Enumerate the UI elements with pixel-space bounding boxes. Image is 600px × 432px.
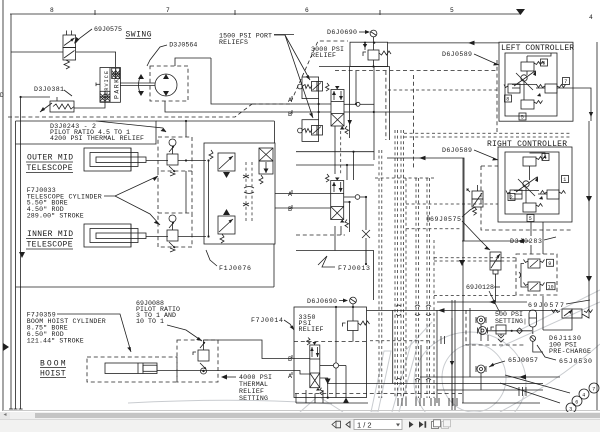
solenoid valve 69J0575 lower [490, 252, 501, 302]
hose fan lines [500, 383, 560, 403]
riser x356 [355, 71, 357, 104]
arrow 4000psi [224, 376, 236, 378]
svg-text:8: 8 [50, 7, 54, 14]
check diamond on 500psi line [487, 330, 532, 332]
left ctrl top valve [521, 56, 544, 71]
leader 65J0530 [537, 345, 556, 360]
svg-text:69J0575: 69J0575 [94, 26, 122, 33]
svg-text:B: B [288, 356, 292, 363]
wire holding valve right riser [178, 160, 206, 162]
leader 65J0057 [489, 361, 505, 367]
500psi setting box lines [469, 308, 471, 377]
left ctrl pilot lines [526, 71, 528, 75]
bottom manifold dashed chain [295, 393, 462, 395]
svg-text:TELESCOPE: TELESCOPE [27, 241, 73, 250]
left ctrl right valve [537, 84, 566, 93]
right ctrl box 5 [527, 215, 534, 222]
svg-text:4200 PSI THERMAL RELIEF: 4200 PSI THERMAL RELIEF [50, 135, 144, 142]
leader D3J0564 [147, 45, 167, 66]
fitting circle A [476, 316, 486, 324]
svg-text:D3J0283: D3J0283 [510, 238, 542, 245]
svg-text:BOOM: BOOM [40, 359, 66, 368]
riser x353 boom box [352, 307, 354, 321]
svg-text:RELIEF: RELIEF [311, 52, 336, 59]
watermark letter N strokes [392, 340, 412, 412]
hose crossing bumps row [396, 305, 431, 380]
wire boom B route [204, 340, 310, 359]
svg-text:F7J0013: F7J0013 [338, 265, 370, 272]
svg-text:SETTING|: SETTING| [495, 318, 527, 325]
pilot line with arrow y302 [437, 301, 527, 303]
pilot riser outer [185, 121, 187, 137]
zone tick 2 [234, 10, 236, 15]
svg-text:8: 8 [506, 97, 509, 103]
svg-text:69J0128: 69J0128 [466, 284, 494, 291]
svg-text:10 TO 1: 10 TO 1 [136, 318, 164, 325]
leader 69J0575 [76, 29, 93, 43]
svg-text:69J0577: 69J0577 [528, 302, 564, 309]
riser x336 boom box [335, 307, 337, 363]
wire inner cyl to holding valve [146, 236, 168, 238]
svg-text:2: 2 [510, 195, 513, 201]
inner holding valve dashed block [158, 213, 192, 247]
left controller outer box [499, 42, 573, 121]
leader 69J0575 to lower valve [462, 221, 490, 250]
relief valve 3350psi [343, 321, 370, 331]
outer telescope cylinder [84, 148, 146, 171]
gauge port D6J0690 boom [350, 297, 357, 304]
F1J0076 side valve [259, 148, 273, 184]
circled hose number 7 [589, 383, 599, 393]
bottom manifold line [296, 402, 368, 404]
leader D3J0381 [64, 90, 72, 96]
wire B continuation right [344, 111, 414, 113]
svg-text:500 PSI: 500 PSI [495, 311, 523, 318]
valve bank top line [319, 66, 390, 68]
svg-text:INNER MID: INNER MID [27, 230, 73, 239]
boom check diamond [201, 368, 207, 374]
boom hoist cylinder [105, 363, 157, 374]
riser x374 valve bank [373, 67, 375, 161]
svg-text:65J0057: 65J0057 [508, 357, 538, 364]
leader F7J0014 [284, 320, 294, 330]
right ctrl left valve [506, 190, 522, 199]
relief valve D3J0381 [40, 101, 74, 112]
watermark right swoosh [500, 344, 600, 412]
svg-text:6: 6 [542, 61, 545, 67]
spool valve swing [326, 83, 349, 134]
service park brake box [96, 68, 121, 103]
swing motor circle [155, 74, 177, 96]
motor shaft [120, 82, 155, 84]
chain boundary into box [296, 234, 345, 236]
solid vertical x543 [542, 222, 544, 254]
circled hose number 4 [579, 389, 589, 399]
svg-text:121.44" STROKE: 121.44" STROKE [27, 338, 84, 345]
svg-text:D6J0589: D6J0589 [442, 147, 472, 154]
wire valve right to brake box [76, 52, 116, 67]
outer holding valve check circle [169, 139, 176, 146]
boom holding valve dashed block [177, 340, 218, 382]
port relief B cartridge [298, 126, 323, 136]
svg-text:F1J0076: F1J0076 [219, 265, 251, 272]
fitting circle C [476, 365, 486, 373]
D3J0283 internal risers [521, 264, 528, 288]
svg-text:1 / 2: 1 / 2 [357, 420, 372, 429]
spool valve telescope F7J0013 [326, 174, 349, 228]
D3J0283 dashed block [516, 254, 557, 295]
right ctrl bottom valve [523, 196, 543, 212]
dashed hose bundle verticals [379, 130, 434, 398]
F1J0076 upper pilot valve [209, 150, 235, 178]
svg-text:6: 6 [575, 400, 578, 406]
spool swing tank port [349, 67, 351, 139]
solid long vertical x462 [462, 158, 464, 403]
svg-text:D6J0690: D6J0690 [327, 29, 357, 36]
svg-text:4000 PSI: 4000 PSI [239, 374, 272, 381]
watermark swoosh group [128, 290, 600, 432]
F1J0076 lower pilot valve [218, 209, 235, 243]
svg-text:9: 9 [548, 261, 551, 267]
svg-text:RELIEFS: RELIEFS [219, 39, 248, 46]
svg-text:10: 10 [548, 284, 554, 290]
dashed cross horizontals [388, 90, 572, 295]
watermark letter C big ellipse [414, 332, 526, 432]
boom valve section box [294, 307, 367, 398]
outer holding valve cartridge [167, 146, 178, 176]
relief valve 3000psi [363, 50, 391, 67]
dashed line in boom box [294, 341, 367, 343]
zone tick 3 [379, 10, 381, 15]
leader F7J0013 [318, 256, 335, 267]
wire relief left to x20.6 [21, 96, 50, 98]
riser x318 between reliefs [318, 99, 320, 120]
motor rotation arrows [139, 75, 142, 95]
fitting circle B [478, 327, 488, 335]
svg-text:1: 1 [563, 177, 566, 183]
leader 69J0088 [167, 325, 202, 341]
leader D6J0589 right [474, 150, 498, 160]
wire boom A route [183, 371, 310, 375]
load check X [362, 230, 370, 238]
inner telescope cylinder [84, 224, 146, 247]
right ctrl right valve [541, 190, 566, 199]
frame bottom border [3, 410, 600, 412]
leader F7J0033 to outer [104, 176, 158, 196]
svg-text:HOIST: HOIST [40, 369, 66, 378]
leader D6J0589 left [474, 54, 499, 65]
svg-text:A: A [288, 97, 292, 104]
leader 69J0128 [489, 291, 500, 313]
long return line x20.6 [20, 97, 22, 409]
svg-text:RELIEF: RELIEF [239, 388, 264, 395]
dashed region box mid [385, 71, 387, 140]
svg-text:RELIEF: RELIEF [299, 326, 324, 333]
svg-text:PRE-CHARGE: PRE-CHARGE [549, 348, 591, 355]
svg-text:OUTER MID: OUTER MID [27, 154, 73, 163]
circled hose number 3 [566, 403, 576, 413]
svg-text:D3J0564: D3J0564 [169, 42, 197, 49]
circled hose number 6 [572, 396, 582, 406]
svg-text:D: D [0, 92, 4, 99]
long line y121 [156, 120, 274, 122]
svg-text:A: A [288, 191, 292, 198]
svg-text:69J0575: 69J0575 [430, 216, 461, 223]
long return line x11 [10, 14, 12, 409]
valve 69J0577 [552, 309, 593, 318]
note box [16, 121, 157, 144]
pilot feed wire to right controller [387, 158, 464, 241]
svg-text:4: 4 [582, 393, 585, 399]
watermark flat swoosh [128, 400, 332, 404]
F1J0076 block outer box [204, 143, 275, 244]
right ctrl pilot lines [529, 166, 531, 180]
boom valve LS circle [320, 365, 333, 367]
zone marker down triangle on line [19, 252, 25, 258]
svg-text:7: 7 [564, 79, 567, 85]
watermark stroke left [300, 398, 316, 412]
right joystick [514, 176, 539, 198]
note leader [96, 121, 166, 132]
left joystick [512, 70, 537, 92]
arrow to gauge [359, 31, 368, 33]
right manifold area lines [367, 309, 559, 311]
gallery line P [296, 151, 374, 153]
svg-text:5: 5 [529, 216, 532, 222]
svg-text:RIGHT CONTROLLER: RIGHT CONTROLLER [487, 140, 567, 149]
boom cylinder dashed box [87, 357, 177, 382]
left ctrl box 5 [519, 113, 526, 120]
right ctrl box 4 [542, 154, 549, 161]
svg-text:A: A [288, 373, 292, 380]
watermark letter N parallelogram 1 [371, 351, 391, 412]
inner holding valve check circle [169, 215, 176, 222]
page frame top border [10, 13, 521, 15]
frame right border [596, 42, 598, 410]
leader port reliefs 1 [274, 35, 310, 80]
wire ctrl to bundle [462, 240, 530, 242]
dashed enclosure left controller [496, 60, 498, 133]
gallery risers [353, 152, 355, 180]
wire inner holding valve to box [178, 236, 206, 238]
dashed machine boundary diagonal [252, 41, 348, 104]
section box bottom y287 [16, 286, 275, 288]
left controller inner box [505, 53, 557, 116]
valve bank right edge [389, 67, 391, 141]
zone marker arrow left edge [3, 343, 9, 351]
svg-text:TELESCOPE: TELESCOPE [27, 164, 73, 173]
svg-text:LEFT CONTROLLER: LEFT CONTROLLER [501, 44, 574, 53]
wire A swing [211, 58, 331, 104]
svg-text:D3J0381: D3J0381 [34, 86, 64, 93]
D3J0283 valve 9 [524, 259, 545, 268]
svg-text:4: 4 [589, 14, 593, 21]
outer holding valve dashed block [158, 137, 192, 171]
D3J0283 valve 10 [524, 282, 545, 291]
leader port reliefs 2 [285, 35, 313, 118]
solenoid valve 69J0575 upper [467, 185, 483, 215]
wire B telescope [275, 207, 331, 209]
swing motor D3J0564 dashed case [150, 66, 188, 101]
left ctrl bottom valve [521, 93, 543, 109]
solid vertical x589 [588, 121, 590, 310]
boom spool valve F7J0014 [307, 338, 324, 396]
wire valve left to x11 [11, 51, 63, 53]
D3J0283 box 9 [547, 259, 554, 266]
gauge port D6J0690 [370, 30, 377, 37]
pilot feed wire to left controller [388, 42, 499, 44]
svg-text:5: 5 [450, 7, 454, 14]
dashed pilot header [335, 70, 497, 72]
left ctrl box 7 [563, 78, 570, 85]
leader 69J0575 to upper valve [462, 207, 475, 217]
right controller outer box [498, 147, 572, 222]
svg-text:PARK: PARK [114, 79, 121, 99]
boom holding valve cartridge [193, 342, 209, 369]
leader F7J0033 to inner [115, 196, 160, 225]
riser x346 lower [345, 366, 347, 404]
left ctrl left valve [504, 84, 520, 93]
wire A telescope [275, 193, 331, 195]
right controller inner box [505, 152, 559, 214]
right comb columns [441, 336, 526, 396]
F1J0076 orifice dashed column [243, 162, 254, 222]
svg-text:7: 7 [592, 387, 595, 393]
boom valve tank arrow [320, 378, 328, 398]
svg-text:D6J0589: D6J0589 [442, 51, 472, 58]
gallery line T [296, 164, 374, 166]
zone center marker triangle [516, 9, 525, 15]
svg-text:5: 5 [521, 115, 524, 121]
svg-text:THERMAL: THERMAL [239, 381, 268, 388]
right ctrl box 2 [508, 194, 515, 201]
port relief B enclosure [302, 120, 319, 142]
svg-text:6: 6 [305, 7, 309, 14]
relief valve 3000psi enclosure [350, 42, 388, 66]
accumulator D6J1130 [529, 310, 537, 334]
inner holding valve cartridge [167, 222, 178, 252]
svg-text:SWING: SWING [126, 30, 152, 39]
wire brake to relief [74, 102, 105, 108]
spool telescope LS circle [344, 196, 355, 198]
svg-text:F7J0014: F7J0014 [251, 317, 283, 324]
svg-text:7: 7 [166, 7, 170, 14]
left ctrl box 8 [505, 95, 512, 102]
dashed boundary swing [8, 104, 252, 117]
D3J0283 box 10 [547, 283, 556, 290]
spool swing LS port circle [344, 103, 356, 105]
bottom comb row 2 [398, 398, 457, 406]
dashed enclosure right controller [481, 166, 572, 230]
svg-text:289.00" STROKE: 289.00" STROKE [27, 212, 84, 219]
spool telescope tank [344, 202, 350, 232]
dashed bundle header caps [375, 177, 434, 179]
solenoid valve 69J0575 swing [63, 31, 76, 70]
relief 500psi [491, 325, 506, 342]
F7J0013 section box [296, 251, 374, 301]
zone tick 1 [94, 10, 96, 15]
svg-text:SETTING: SETTING [239, 395, 268, 402]
svg-text:65J0530: 65J0530 [559, 358, 592, 365]
svg-text:D6J0690: D6J0690 [307, 298, 337, 305]
boom valve drain verticals [305, 390, 307, 403]
left ctrl box 6 [541, 59, 548, 66]
wire cylinder to holding valve [157, 370, 183, 372]
port relief A cartridge [298, 82, 323, 92]
svg-text:B: B [288, 206, 292, 213]
port relief A enclosure [302, 77, 319, 99]
wire outer cyl to holding valve [146, 160, 168, 162]
long return line x15.5 [15, 121, 17, 409]
arrow to gauge boom [339, 300, 346, 302]
leader F1J0076 [206, 250, 217, 266]
right ctrl top valve [523, 157, 546, 167]
gauge circle below accumulator [530, 336, 536, 342]
wire B swing [165, 101, 331, 112]
riser x206 [208, 161, 210, 237]
left ctrl right riser [557, 88, 591, 121]
right ctrl box 1 [562, 176, 569, 183]
leader F7J0359 [57, 314, 131, 352]
frame left border [2, 0, 4, 411]
